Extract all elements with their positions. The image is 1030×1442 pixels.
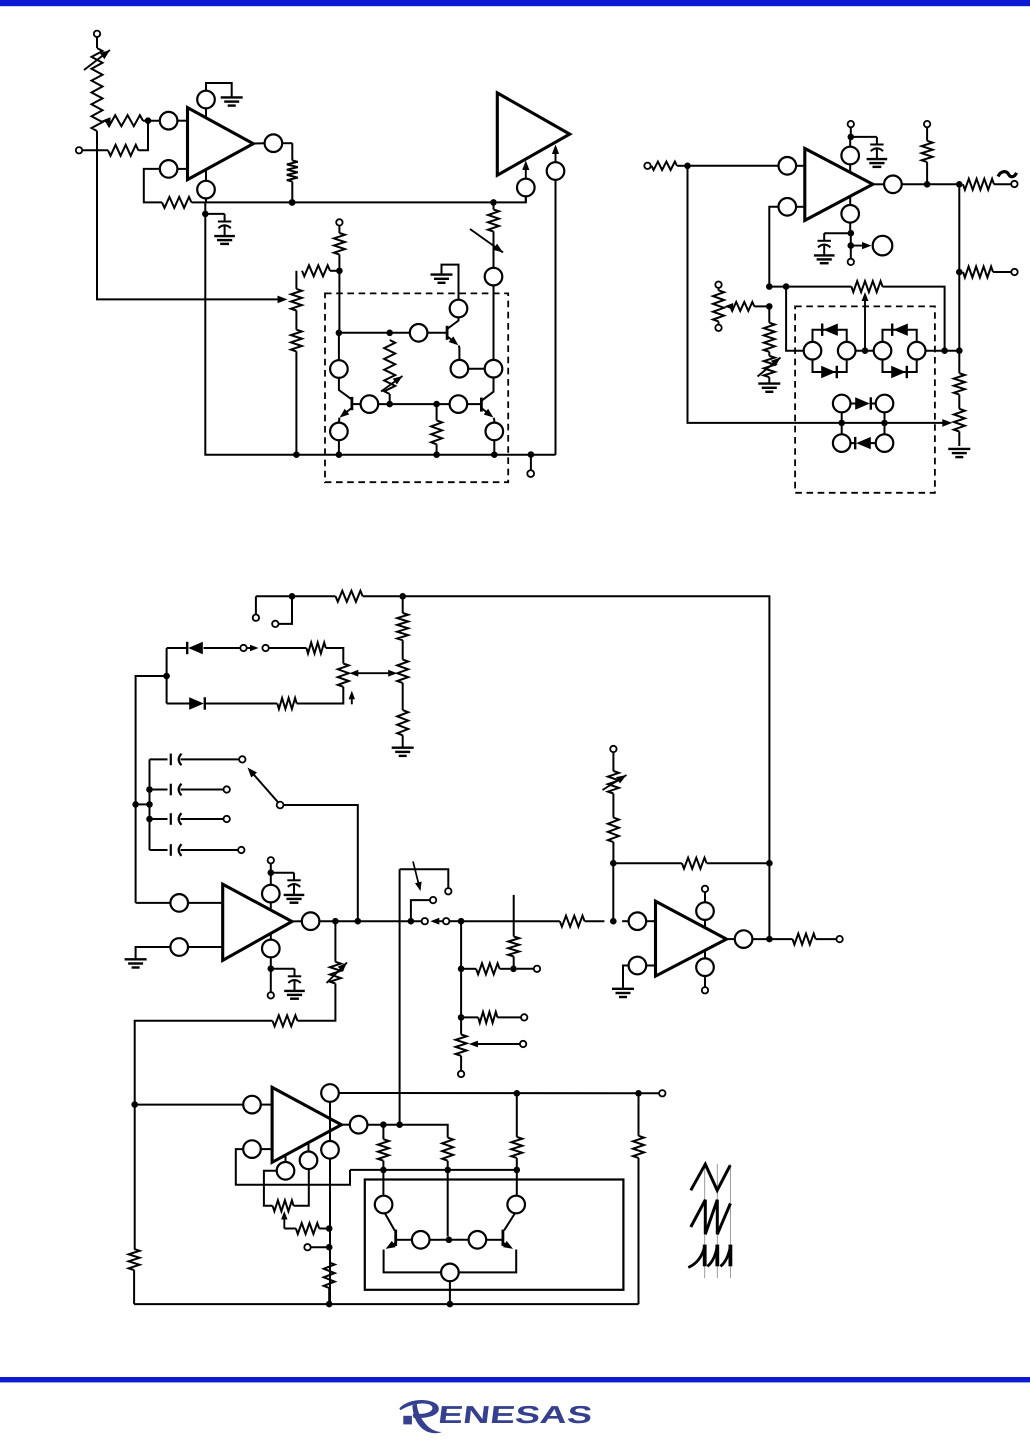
node AQ dot — [458, 966, 465, 973]
capacitor C2 to ground — [867, 137, 888, 167]
diode D4 — [891, 366, 907, 378]
terminal J6 — [848, 259, 854, 265]
resistor R48 — [324, 1262, 335, 1304]
terminal J11 — [262, 645, 306, 651]
node W dot — [766, 283, 773, 290]
wire T down — [958, 184, 960, 272]
wire AT to comparator — [135, 1104, 243, 1106]
diode D2 — [821, 366, 837, 378]
diode D7 — [167, 642, 241, 654]
resistor R32 — [461, 1012, 521, 1023]
node BH dot — [610, 860, 617, 867]
capacitor C6 — [150, 813, 230, 825]
dashed box current-source block — [325, 293, 508, 482]
potentiometer R25 — [397, 640, 408, 683]
terminal J19 — [702, 987, 708, 993]
bridge1 left circle — [804, 342, 822, 360]
U6 feedback rail — [613, 863, 769, 921]
node S dot — [924, 181, 931, 188]
U6 +input circle — [622, 912, 655, 930]
pin circle P7 — [451, 360, 485, 378]
wire bridge2 to V — [926, 350, 960, 352]
node BA dot — [444, 1167, 451, 1174]
bridge2 right circle — [908, 342, 926, 360]
node V dot — [956, 347, 963, 354]
terminal J18 — [702, 886, 708, 892]
lower bridge bottom-right circle — [876, 434, 894, 452]
node AI dot — [146, 801, 153, 808]
wire to C3 — [824, 232, 851, 234]
node AS dot — [458, 1014, 465, 1021]
U3 -input circle — [769, 198, 805, 287]
long wire fig2 input to R22 wiper — [688, 166, 953, 427]
U4 output circle — [292, 912, 319, 930]
node BF dot — [610, 918, 617, 925]
node P dot — [848, 134, 855, 141]
pin circle P13 — [277, 1155, 295, 1180]
S3 arm — [430, 918, 443, 925]
node AN dot — [355, 918, 362, 925]
plug arrow — [248, 645, 259, 651]
node C dot — [202, 211, 209, 218]
potentiometer R18 — [713, 282, 724, 331]
wire node E down — [338, 271, 340, 333]
comparator U5 — [272, 1087, 341, 1162]
node AP dot — [458, 918, 465, 925]
node U dot — [956, 269, 963, 276]
rheostat R34 — [298, 921, 348, 1021]
U6 bottom pin circle — [696, 951, 714, 987]
waveform grid lines — [705, 1164, 731, 1278]
node AU dot — [326, 1225, 333, 1232]
node Q dot — [848, 230, 855, 237]
diode D5 — [851, 397, 876, 409]
pin circle P5 — [410, 324, 446, 342]
bottom blue rule — [0, 1377, 1030, 1382]
feedback rail — [769, 287, 944, 351]
potentiometer R22 — [954, 409, 965, 446]
svg-text:ENESAS: ENESAS — [436, 1402, 593, 1429]
node AM dot — [332, 918, 339, 925]
node E dot — [336, 268, 343, 275]
capacitor C3 to ground — [814, 233, 835, 263]
node Z dot — [862, 347, 869, 354]
resistor R30 — [461, 963, 510, 974]
pin circle P16 base — [412, 1231, 440, 1249]
terminal J8 sine output — [1011, 181, 1017, 187]
hysteresis rail — [339, 1092, 639, 1094]
wire P1 into box — [493, 285, 495, 360]
lower bridge top-left circle — [833, 395, 851, 413]
node Ldot — [433, 401, 440, 408]
resistor R38 — [284, 1223, 329, 1234]
sine symbol — [998, 172, 1017, 177]
ground G5 — [392, 748, 414, 756]
resistor R43 — [560, 916, 605, 927]
left rail lower — [134, 1105, 136, 1249]
resistor R14 — [922, 127, 933, 184]
U5 +input circle — [243, 1096, 272, 1114]
flip-flop box — [365, 1180, 624, 1290]
rotary switch S2 pivot — [277, 802, 284, 809]
S3 upper contact — [411, 897, 436, 921]
S2 arm — [248, 768, 278, 802]
S3 actuator arrow — [413, 861, 422, 891]
node BD dot — [447, 1301, 454, 1308]
in-box top rail — [339, 332, 410, 334]
sawtooth waveform — [691, 1200, 731, 1235]
node AY dot — [514, 1090, 521, 1097]
U3 +input circle — [779, 157, 805, 175]
terminal J2 — [76, 147, 108, 153]
wire BI to U6 output — [768, 863, 770, 939]
feedback pot R17 — [851, 281, 882, 292]
U1 pin 1 bottom circle — [197, 170, 215, 203]
terminal J23 — [527, 455, 534, 477]
buffer pin circle P12 — [547, 145, 565, 455]
node AV dot — [326, 1301, 333, 1308]
resistor R45 — [682, 858, 707, 869]
op-amp U1 — [188, 108, 254, 180]
terminal J4 — [644, 163, 650, 169]
resistor R35 — [135, 1015, 298, 1104]
terminal J21 — [610, 746, 616, 771]
op-amp U4 — [223, 884, 292, 960]
bridge1 bottom branch — [813, 360, 847, 373]
rheostat R11 — [381, 340, 403, 404]
pin circle P17 base — [469, 1231, 502, 1249]
fig3 main output line — [319, 920, 421, 922]
U3 bottom pin circle — [841, 197, 859, 234]
rheostat R1 — [84, 48, 110, 131]
bridge1 top branch — [813, 330, 847, 342]
U1 pin 3 input circle — [160, 112, 188, 130]
wire AP down — [460, 921, 462, 1034]
resistor R5 — [162, 197, 206, 208]
transistor Q4 — [384, 1214, 441, 1273]
node AG dot — [132, 801, 149, 808]
lower bridge top-right circle — [876, 395, 894, 413]
node AK dot — [268, 869, 275, 876]
pin circle P3 — [361, 395, 379, 413]
op-amp U3 — [805, 149, 873, 221]
output resistor R15 — [963, 179, 1011, 190]
diode loop left side — [166, 648, 168, 704]
node BC dot — [446, 1237, 453, 1244]
node A dot — [145, 117, 152, 124]
R17 wiper arrow — [862, 292, 869, 351]
node BE dot — [635, 1090, 642, 1097]
resistor R44 — [769, 934, 836, 945]
U6 output circle — [727, 930, 770, 948]
diode D3 — [892, 324, 908, 336]
wire pot bottom to lower pot wiper — [97, 131, 288, 303]
pin circle P18 — [507, 1196, 525, 1214]
node X dot — [783, 283, 790, 290]
node D dot — [293, 451, 300, 458]
wire X to bridge — [786, 287, 804, 351]
resistor R9 — [334, 233, 345, 271]
compensation arrow pin — [851, 236, 893, 256]
wire to U3 +input — [688, 165, 779, 167]
transistor Q5 — [459, 1214, 516, 1273]
node BI dot — [766, 860, 773, 867]
switch S1 contacts — [253, 596, 292, 627]
bridge1 right circle — [838, 342, 856, 360]
terminal J1 — [94, 31, 100, 48]
node AB dot — [838, 420, 845, 427]
dual wiper link — [349, 670, 397, 677]
bridge middle wire — [856, 350, 874, 352]
pin circle P1 — [485, 268, 503, 286]
terminal J7 — [924, 121, 930, 127]
node Y dot — [766, 303, 773, 310]
resistor R29 — [205, 698, 297, 709]
resistor R47 — [608, 818, 619, 864]
ground G4 — [948, 449, 970, 457]
resistor R40 — [442, 1138, 453, 1237]
terminal J14 — [517, 966, 541, 972]
cap bus — [149, 759, 151, 850]
ground G7 — [612, 989, 634, 997]
terminal J12 — [268, 857, 274, 873]
S3 fixed contact U-link — [400, 869, 452, 894]
potentiometer R28 — [297, 664, 349, 704]
rheostat R46 — [603, 771, 627, 818]
U5 internal pin link — [329, 1102, 331, 1141]
diode D8 — [167, 697, 205, 709]
U6 top pin circle — [696, 892, 714, 928]
S3 terminal circle — [443, 918, 458, 924]
node AT dot — [131, 1101, 138, 1108]
transistor Q2 — [447, 317, 459, 360]
U1 pin 2 input circle — [160, 160, 188, 178]
node R dot — [848, 233, 855, 259]
resistor R21 — [954, 351, 965, 409]
node AE dot — [399, 593, 406, 600]
node AH dot — [146, 786, 153, 793]
feedback pot R37 — [264, 1169, 309, 1211]
U5 -input circle — [236, 1140, 350, 1185]
node BB dot — [514, 1167, 521, 1174]
terminal J17 — [639, 1090, 666, 1096]
terminal J9 — [1011, 269, 1017, 275]
op-amp U6 — [656, 901, 727, 976]
node AD dot — [289, 593, 296, 600]
wire main horizontal net1 — [205, 196, 526, 202]
R33 wiper — [469, 1041, 526, 1048]
node BK dot — [528, 451, 535, 458]
wire H down — [338, 333, 340, 360]
resistor R41 — [511, 1093, 522, 1195]
S2 wire to A1 output — [283, 805, 358, 921]
resistor R31 with stub — [508, 895, 519, 969]
node AF dot — [163, 673, 170, 680]
wire node C — [205, 202, 224, 214]
wire to C2 — [851, 136, 877, 138]
resistor R8 — [291, 311, 302, 455]
pin circle P15 — [375, 1196, 393, 1214]
node AJ dot — [146, 816, 153, 823]
resistor R39 — [378, 1125, 389, 1196]
flipflop base rail — [440, 1239, 469, 1241]
resistor R42 — [633, 1093, 644, 1304]
node AX dot — [396, 1121, 403, 1128]
U4 top pin circle — [262, 873, 280, 911]
transistor Q3 — [481, 378, 494, 423]
pin circle P10 — [486, 423, 504, 455]
U5 output circle — [341, 1116, 367, 1134]
node N dot — [491, 451, 498, 458]
U5 top pin circle — [321, 1084, 339, 1102]
node AO dot — [408, 918, 415, 925]
potentiometer R6 — [291, 289, 302, 311]
U4 -input circle — [136, 938, 223, 958]
wire AF to left rail — [136, 676, 167, 903]
wire long bottom left vertical — [205, 214, 555, 455]
terminal J13 — [268, 969, 274, 999]
exponential sawtooth waveform — [688, 1245, 730, 1268]
buffer amplifier U2 — [497, 93, 569, 175]
capacitor C5 — [150, 784, 230, 796]
capacitor C7 — [150, 844, 245, 856]
potentiometer R33 — [456, 1035, 467, 1071]
in-box lower rail — [378, 403, 480, 405]
capacitor C8 to ground — [271, 873, 305, 903]
node H dot — [336, 330, 343, 337]
resistor R16 — [963, 267, 1011, 278]
U6 -input circle — [623, 957, 656, 988]
terminal J20 output — [836, 936, 842, 942]
resistor R12 — [431, 404, 442, 455]
node BG dot — [766, 936, 773, 943]
resistor R27 — [306, 643, 343, 664]
lower bridge left vertical — [841, 412, 843, 434]
node B dot — [289, 199, 296, 206]
U3 output circle — [873, 176, 927, 194]
wire main line to R43 — [461, 920, 560, 922]
terminal J10 — [240, 645, 246, 651]
resistor R23 — [336, 591, 363, 602]
terminal J5 — [848, 121, 854, 137]
ground flag G2 — [431, 265, 459, 300]
ground G6 — [125, 959, 147, 967]
node AW dot — [380, 1121, 387, 1128]
resistor R26 — [397, 683, 408, 747]
U5 bottom pin circle — [321, 1141, 339, 1304]
buffer pin circle P11 — [517, 161, 535, 203]
resistor R19 — [764, 306, 775, 351]
diode D6 — [851, 437, 876, 449]
capacitor C9 to ground — [271, 969, 305, 999]
terminal J3 — [336, 219, 342, 233]
pin circle P9 — [450, 395, 468, 413]
capacitor C1 to ground — [214, 214, 235, 244]
wire U down — [958, 272, 960, 351]
resistor R10 — [470, 202, 503, 267]
long vertical to comparator output — [399, 869, 401, 1124]
node T dot — [956, 181, 963, 188]
bridge2 left circle — [874, 342, 892, 360]
U3 top pin circle — [841, 137, 859, 173]
ground G1 — [221, 97, 243, 105]
node J dot — [386, 330, 393, 337]
pin circle P14 — [300, 1143, 318, 1170]
node BJ dot — [326, 1244, 333, 1251]
node I dot — [336, 451, 343, 458]
pin circle P8 — [485, 360, 503, 378]
pin circle P4 — [330, 423, 348, 455]
U1 output pin 6 circle — [253, 134, 282, 152]
pin circle P6 — [450, 300, 468, 318]
comparator output rail — [367, 1125, 447, 1138]
R18 wiper — [724, 302, 769, 311]
resistor R4 — [287, 143, 298, 202]
R37 wiper arrow — [281, 1211, 287, 1229]
wire U1 inverting input loop — [144, 169, 162, 203]
fig3 bottom rail — [134, 1303, 638, 1305]
wire S to T — [927, 183, 959, 185]
triangle waveform — [691, 1164, 730, 1190]
potentiometer wiper R2 — [102, 115, 160, 126]
wire pot R6 top — [295, 271, 297, 289]
fig3 top rail — [256, 596, 770, 863]
flipflop supply rail — [350, 1169, 517, 1171]
resistor R24 — [397, 596, 408, 640]
dashed box diode block — [795, 306, 935, 492]
bridge2 top branch — [883, 330, 917, 342]
resistor R3 — [108, 121, 148, 156]
terminal J22 — [304, 1244, 329, 1250]
diode D1 — [822, 324, 838, 336]
resistor R7 — [302, 265, 339, 276]
wire U1 output to feedback node — [282, 142, 292, 144]
rheostat R20 — [758, 352, 781, 383]
pin circle P19 emitter-common — [441, 1264, 459, 1305]
bridge2 bottom branch — [883, 360, 917, 373]
lower bridge right vertical — [884, 412, 886, 434]
node F dot — [289, 199, 296, 206]
capacitor C4 — [150, 754, 246, 766]
node M dot — [433, 451, 440, 458]
U4 bottom pin circle — [262, 933, 280, 969]
pin circle P2 — [330, 360, 348, 378]
terminal J15 — [521, 1014, 527, 1020]
node AZ dot — [380, 1167, 387, 1174]
source resistor R13 — [652, 162, 688, 170]
switch S3 lower contact — [422, 918, 428, 924]
ground G3 — [758, 384, 780, 392]
node AR dot — [510, 966, 517, 973]
top blue banner bar — [0, 0, 1030, 6]
node O dot — [684, 163, 691, 170]
node AC dot — [881, 420, 888, 427]
Renesas logo — [399, 1400, 593, 1433]
transistor Q1 — [339, 378, 361, 423]
node G dot — [490, 199, 497, 206]
node K dot — [386, 401, 393, 408]
lower bridge bottom-left circle — [833, 434, 851, 452]
terminal J16 — [458, 1071, 464, 1077]
U4 +input circle — [136, 894, 223, 912]
U1 pin 8 top circle — [197, 83, 232, 118]
R28 wiper arrow — [349, 691, 355, 705]
node AL dot — [268, 965, 275, 972]
resistor R36 — [129, 1249, 140, 1304]
node AA dot — [941, 347, 948, 354]
